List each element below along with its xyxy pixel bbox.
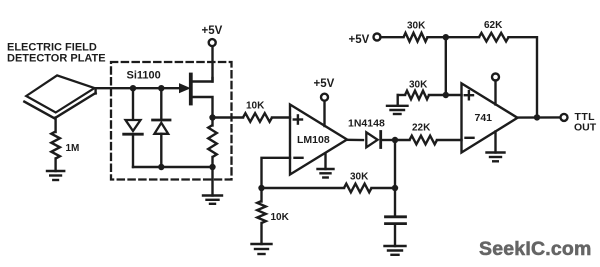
wire 10K to LM108 + [272, 116, 290, 118]
wire node to capacitor [394, 188, 396, 216]
svg-text:30K: 30K [409, 80, 428, 91]
node dot rail [443, 34, 449, 40]
node dot output [534, 114, 540, 120]
label ELECTRIC FIELD DETECTOR PLATE [7, 41, 106, 64]
svg-text:10K: 10K [271, 212, 290, 223]
svg-text:ELECTRIC FIELD: ELECTRIC FIELD [7, 41, 97, 53]
wire rail to ground [211, 167, 213, 196]
wire + node to 741 [446, 94, 462, 96]
wire source node to 10K [213, 116, 244, 118]
resistor R5 22K [410, 136, 437, 145]
ground below R3 [252, 244, 272, 254]
Si1100 module dashed box [111, 62, 232, 180]
op-amp U2 741 [462, 83, 518, 152]
resistor R6 30K top [404, 33, 428, 42]
node dot cap [392, 185, 398, 191]
wire +5V to 30K [381, 36, 404, 38]
node dot 741 + [443, 92, 449, 98]
ground below box [203, 196, 222, 204]
resistor R2 10K [243, 113, 272, 122]
source resistor (internal) [208, 118, 217, 168]
wire node down [394, 140, 396, 188]
svg-text:1M: 1M [66, 143, 80, 154]
svg-text:741: 741 [475, 112, 493, 124]
+5V supply terminal (741) [492, 74, 499, 105]
svg-text:LM108: LM108 [297, 134, 330, 146]
svg-text:+5V: +5V [202, 25, 223, 37]
transistor Q1 JFET [180, 46, 213, 118]
ground below 1M [47, 171, 64, 180]
svg-text:Si1100: Si1100 [127, 70, 161, 82]
node dot rail D2 [158, 164, 164, 170]
resistor R8 30K to ground [398, 91, 446, 106]
+5V supply terminal (top rail) [349, 34, 381, 47]
detector plate [24, 75, 95, 118]
wire plate to gate [95, 87, 182, 89]
label TTL OUT [574, 111, 597, 134]
node dot source [209, 114, 215, 120]
ground (LM108) [318, 154, 334, 178]
resistor R7 62K [479, 33, 509, 42]
svg-text:30K: 30K [407, 21, 426, 32]
wire plate to 1M [54, 118, 56, 133]
op-amp U1 LM108 [290, 105, 347, 175]
wire 22K to 741 inverting input [437, 139, 462, 141]
node dot rail resistor [209, 164, 215, 170]
+5V supply terminal (LM108) [314, 78, 335, 126]
diode D2 [153, 88, 170, 167]
diode D1 [124, 88, 143, 167]
wire 30K to rail node [428, 36, 480, 38]
svg-text:30K: 30K [350, 172, 369, 183]
resistor R4 30K feedback [344, 184, 371, 193]
svg-text:22K: 22K [412, 122, 431, 133]
svg-text:OUT: OUT [574, 122, 597, 134]
wire feedback node to 30K [262, 187, 345, 189]
wire 30K to cap node [372, 187, 396, 189]
ground below R8 [387, 106, 408, 114]
node dot diode/22K [392, 137, 398, 143]
ground below C1 [385, 246, 406, 255]
svg-text:+5V: +5V [349, 34, 370, 46]
ground (741) [487, 132, 505, 162]
wire LM108 inverting input [262, 158, 291, 188]
bottom rail wire [133, 166, 213, 168]
+5V supply terminal (JFET drain) [202, 25, 223, 46]
svg-text:1N4148: 1N4148 [348, 118, 385, 130]
wire LM108 output [347, 139, 363, 142]
diode D3 1N4148 [348, 118, 395, 148]
output terminal TTL [561, 114, 568, 121]
node dot D1 tap [130, 85, 136, 91]
resistor R3 10K vertical [257, 188, 266, 244]
svg-text:DETECTOR PLATE: DETECTOR PLATE [7, 53, 106, 65]
node dot feedback [258, 185, 264, 191]
svg-text:+5V: +5V [314, 78, 335, 90]
wire 62K to output node [509, 37, 538, 117]
wire rail node down to + node [445, 37, 447, 95]
wire 1M to ground [54, 159, 56, 172]
wire 741 output [518, 116, 561, 119]
resistor R1 1M [51, 132, 60, 159]
svg-text:62K: 62K [484, 20, 503, 31]
svg-text:10K: 10K [246, 101, 265, 112]
wire node to 22K [395, 139, 410, 141]
capacitor C1 [386, 217, 406, 246]
node dot D2 tap [158, 85, 164, 91]
svg-text:SeekIC.com: SeekIC.com [479, 238, 592, 260]
